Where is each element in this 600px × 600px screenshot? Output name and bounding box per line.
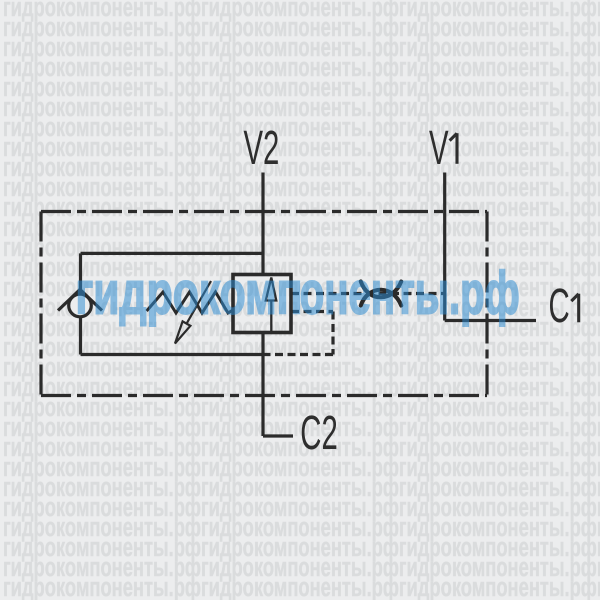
envelope right edge [485,212,488,396]
relief valve box U1 [233,275,291,333]
pilot loop horizontal upper [291,310,333,313]
spring [147,292,233,313]
pilot line to V1 [291,292,445,295]
relief valve flow arrowhead [266,278,277,301]
blue watermark [76,259,520,327]
svg-text:C2: C2 [300,407,337,460]
check valve seat [58,290,102,311]
relief valve flow arrow shaft [270,301,272,333]
pilot loop horizontal lower [263,353,333,356]
svg-text:оненты.рф: оненты.рф [300,259,520,326]
wire C1 port line [445,319,536,322]
restrictor bottom arc [361,290,401,306]
wire check-valve branch top horizontal [81,252,264,255]
wire check-valve branch left vertical [79,253,82,354]
svg-text:гидрокомпоненты.рфгидрокомпоне: гидрокомпоненты.рфгидрокомпоненты.рфгидр… [3,573,600,600]
restrictor top arc [361,282,401,298]
wire C2 port line [261,333,264,437]
svg-text:C: C [549,280,570,333]
svg-text:гидрокомп: гидрокомп [76,260,303,327]
adjustment arrow shaft [187,281,211,323]
wire V2 port line [261,173,264,275]
wire V1 port line [443,173,446,321]
envelope bottom edge [41,394,487,397]
check valve ball [69,294,92,317]
envelope top edge [41,210,487,213]
adjustment arrowhead [175,321,190,343]
wire C2 stub [263,434,293,437]
svg-text:V: V [429,122,449,175]
envelope left edge [39,212,42,396]
wire check-valve branch bottom horizontal [81,353,264,356]
pilot loop vertical [331,312,334,355]
svg-text:V2: V2 [244,122,280,175]
